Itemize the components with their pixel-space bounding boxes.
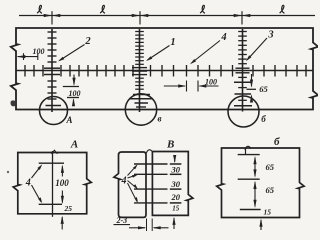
detail B weld increment mark 4 bbox=[134, 202, 168, 204]
svg-text:100: 100 bbox=[69, 89, 81, 98]
detail B weld increment mark 1 bbox=[134, 163, 168, 165]
detail Б bottom reference arrow bbox=[259, 219, 262, 227]
svg-text:65: 65 bbox=[266, 185, 275, 195]
svg-text:б: б bbox=[261, 114, 266, 124]
svg-text:100: 100 bbox=[33, 47, 45, 56]
dim label l (segment 3) bbox=[200, 5, 205, 13]
svg-text:65: 65 bbox=[259, 84, 268, 94]
detail circle Б on seam 3 bbox=[228, 96, 259, 127]
detail B weld increment mark 3 bbox=[134, 188, 168, 190]
svg-text:1: 1 bbox=[170, 37, 175, 48]
svg-text:15: 15 bbox=[172, 205, 180, 213]
svg-text:4: 4 bbox=[25, 177, 31, 188]
dim label l (segment 2) bbox=[100, 5, 105, 13]
detail A weld increment mark upper bbox=[39, 162, 64, 164]
detail B break squiggle at top of gap bbox=[146, 150, 153, 153]
detail A weld increment mark lower bbox=[39, 203, 62, 205]
detail circle A on seam 2 bbox=[40, 97, 68, 125]
svg-text:2-3: 2-3 bbox=[115, 216, 127, 225]
svg-text:30: 30 bbox=[171, 165, 181, 175]
detail Б plate box with edge breaks bbox=[217, 148, 304, 218]
svg-text:4: 4 bbox=[220, 32, 226, 43]
detail B left plate (rounded) with break bbox=[114, 152, 146, 217]
detail Б dimension 65 (upper) bbox=[253, 156, 256, 164]
svg-text:100: 100 bbox=[205, 78, 217, 87]
dimension tick with converging arrows at x=140 bbox=[139, 11, 141, 24]
detail B right plate with breaks bbox=[152, 152, 193, 216]
dimension 100 horizontal on seam 4 bbox=[164, 85, 185, 87]
detail Б weld seam axis stub bbox=[245, 148, 247, 154]
dimension 100 horizontal at plate left edge bbox=[17, 55, 25, 58]
dim label l (segment 4) bbox=[280, 5, 285, 13]
detail A weld seam axis vertical bbox=[52, 151, 54, 217]
svg-text:3: 3 bbox=[267, 30, 273, 41]
scan artifact specks near left margin bbox=[7, 171, 9, 173]
weld seam 4 transverse tick marks bbox=[24, 65, 26, 77]
detail A dimension 100 between marks bbox=[61, 165, 64, 173]
weld seam 4 (horizontal axis line across plate) bbox=[16, 70, 313, 72]
detail B bottom reference arrow bbox=[172, 217, 175, 225]
detail B weld increment mark 2 bbox=[134, 173, 168, 175]
detail Б weld increment mark 3 bbox=[240, 209, 261, 211]
weld seam 1 (middle vertical) with dense tick marks bbox=[139, 29, 141, 112]
detail Б weld increment mark 2 bbox=[238, 178, 260, 180]
svg-text:А: А bbox=[65, 115, 72, 125]
detail circle B on seam 1 bbox=[125, 94, 156, 125]
dim label l (segment 1) bbox=[37, 5, 42, 13]
weld seam 3 (right vertical) with tick marks bbox=[242, 29, 244, 112]
svg-text:100: 100 bbox=[55, 178, 69, 188]
detail Б break squiggle on top edge bbox=[245, 146, 251, 149]
dimension 100 vertical near seam 2 bbox=[73, 75, 75, 85]
detail Б weld increment mark 1 bbox=[238, 154, 260, 156]
detail B top reference arrow bbox=[174, 156, 176, 162]
dimension tick with converging arrows at x=52 bbox=[51, 11, 53, 24]
svg-text:в: в bbox=[157, 114, 161, 124]
svg-text:30: 30 bbox=[171, 179, 181, 189]
svg-text:15: 15 bbox=[264, 207, 272, 216]
dimension 65 vertical near seam 3 bbox=[251, 74, 253, 86]
svg-text:4: 4 bbox=[121, 175, 127, 186]
svg-text:А: А bbox=[70, 138, 78, 150]
weld seam 2 (left vertical) with tick marks bbox=[51, 29, 53, 112]
svg-text:б: б bbox=[274, 136, 280, 148]
plate outline with break symbols on left and right edges bbox=[11, 28, 318, 110]
detail Б dimension 65 (lower) bbox=[253, 181, 256, 189]
detail A plate box with edge breaks bbox=[13, 153, 91, 214]
svg-text:В: В bbox=[166, 139, 174, 151]
svg-text:2: 2 bbox=[84, 36, 91, 47]
dimension line overall (top), y=16 bbox=[19, 15, 315, 17]
detail A break mark at seam top bbox=[51, 150, 57, 154]
dimension tick with converging arrows at x=242 bbox=[241, 11, 243, 24]
svg-text:25: 25 bbox=[64, 204, 73, 213]
svg-text:65: 65 bbox=[266, 162, 275, 172]
svg-text:20: 20 bbox=[171, 192, 181, 202]
